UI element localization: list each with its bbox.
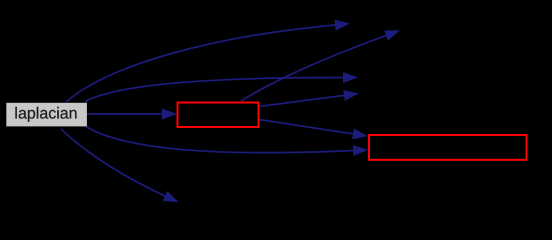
node right red box [369,135,527,160]
edge laplacian to top node A [66,25,335,102]
node laplacian [6,103,87,127]
node middle red box [178,103,259,128]
edge laplacian to node B [85,78,343,102]
edge laplacian to right red box [86,127,353,153]
edge middle box to right red box [259,120,353,134]
edge laplacian to middle red box [87,113,162,115]
edge laplacian to bottom node C [61,129,165,196]
edge middle box to node E [259,95,344,106]
edge middle box to top node D [241,36,386,102]
svg-text:laplacian: laplacian [14,106,77,123]
